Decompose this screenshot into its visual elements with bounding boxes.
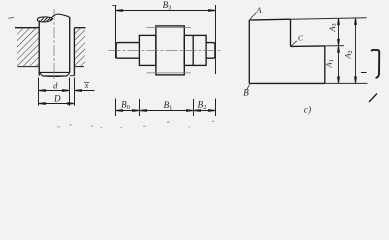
svg-text:d: d [53,80,58,90]
svg-text:A: A [256,6,262,15]
svg-text:x: x [84,81,89,90]
svg-text:c): c) [304,105,311,116]
svg-text:B: B [243,88,249,98]
svg-text:D: D [53,93,61,103]
